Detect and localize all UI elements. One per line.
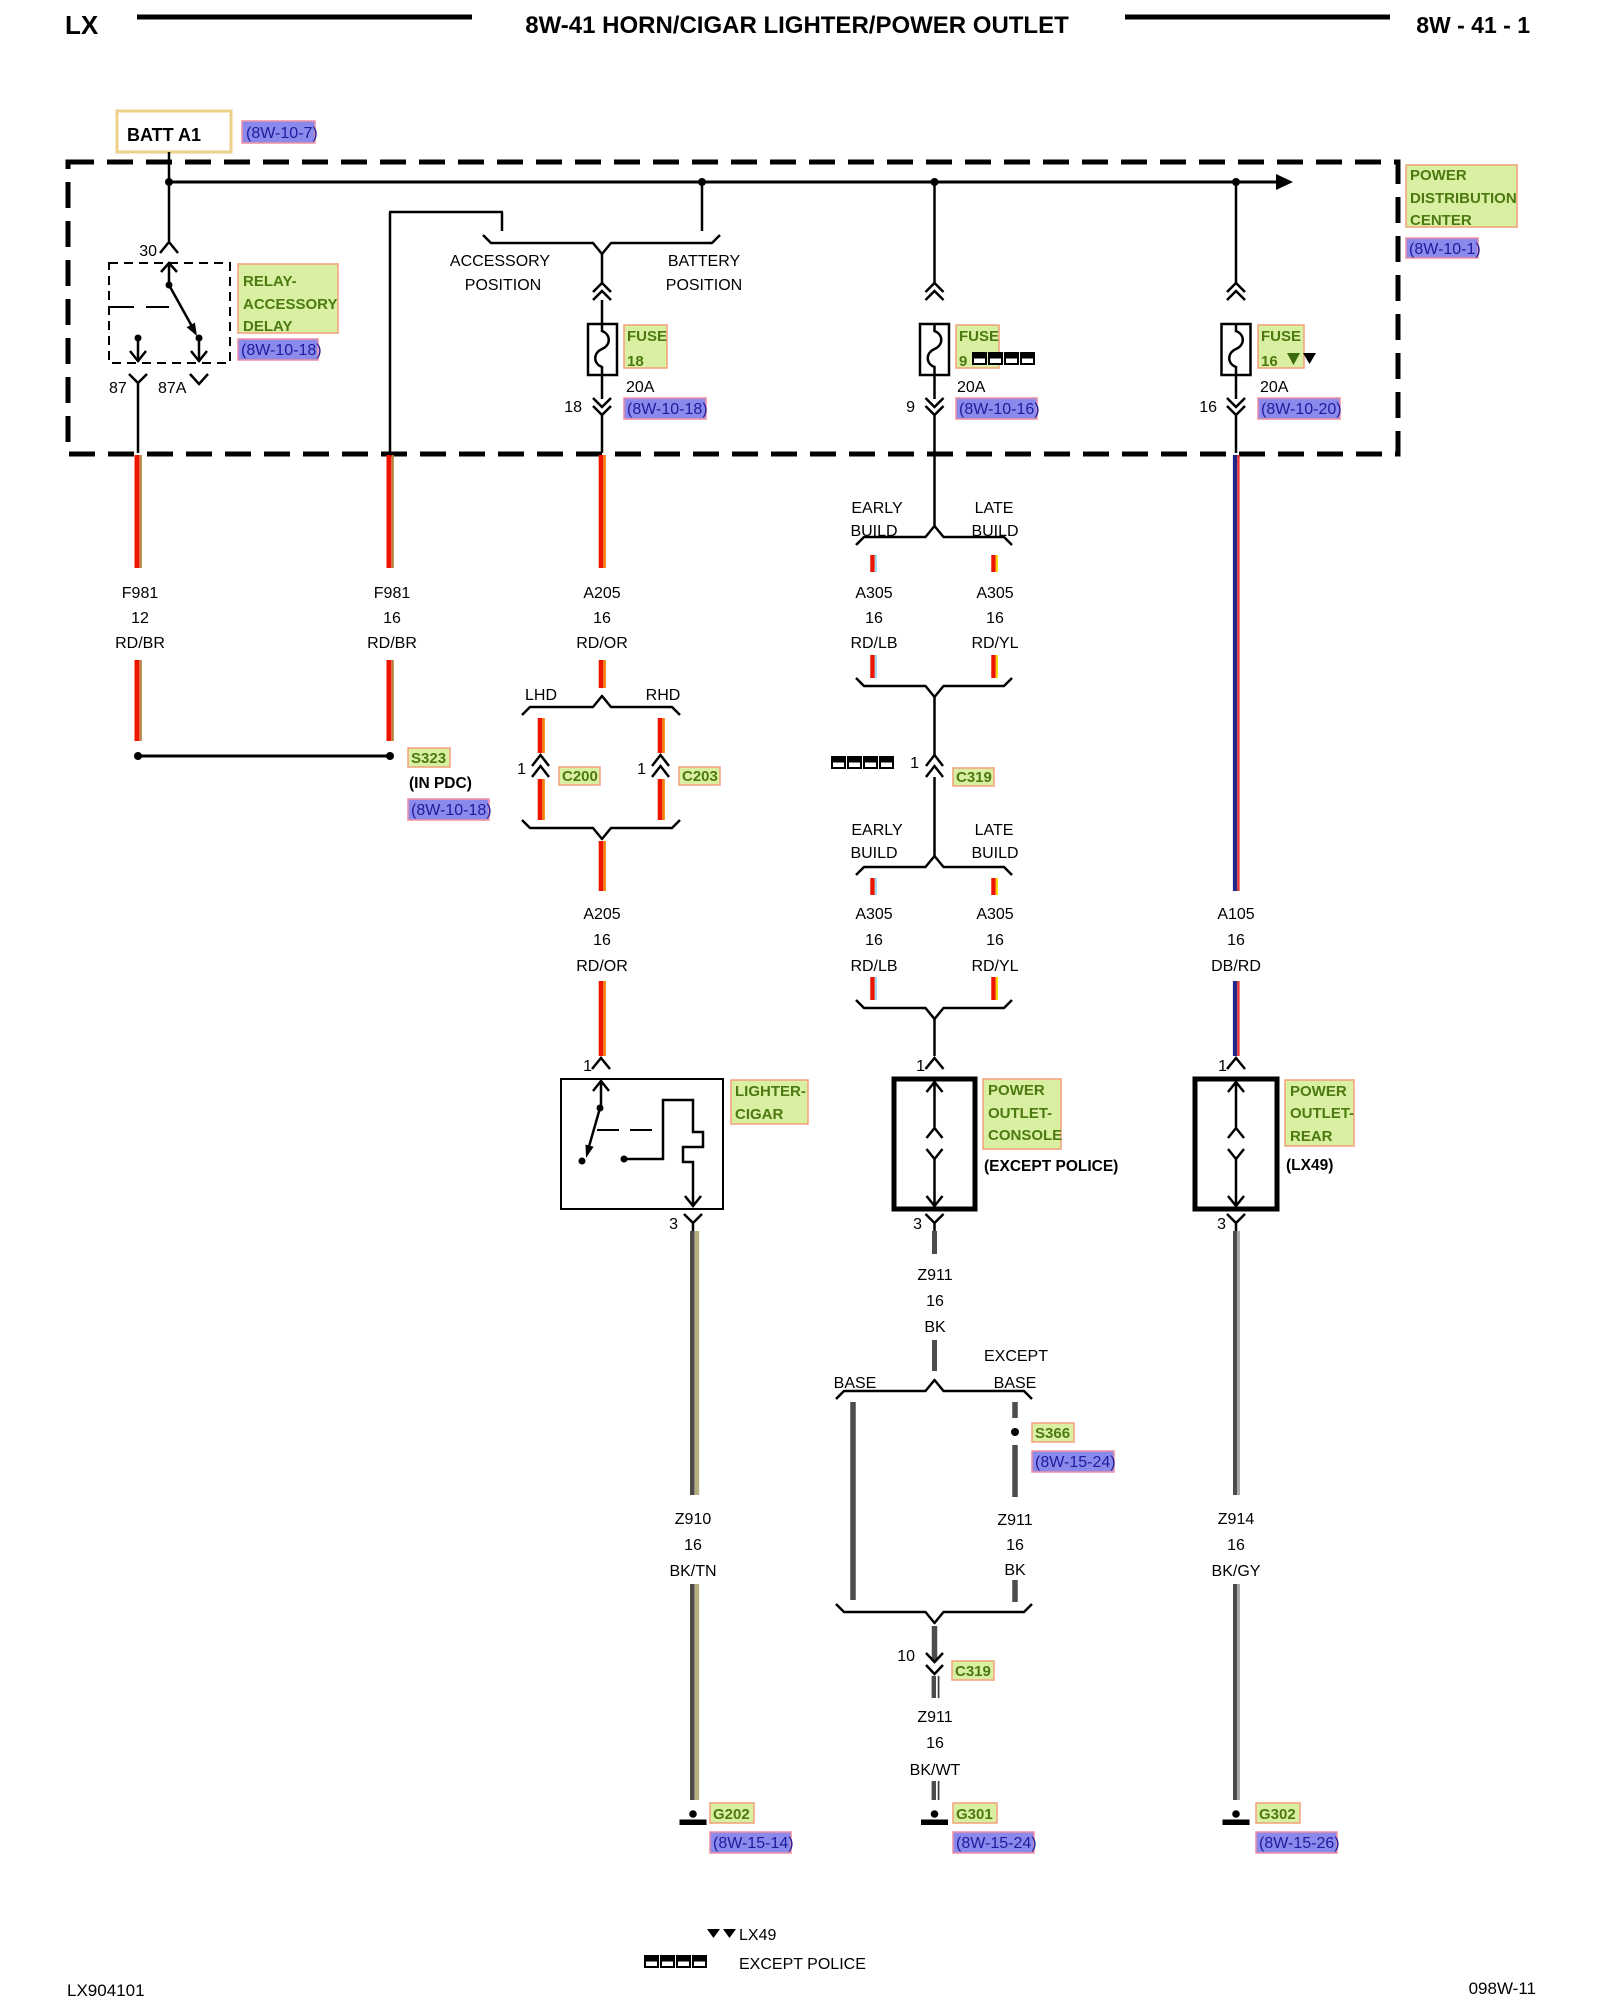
except-police marker squares beside C319 [832, 757, 893, 768]
svg-text:RD/YL: RD/YL [971, 635, 1018, 652]
svg-text:DB/RD: DB/RD [1211, 958, 1261, 975]
wire bus to fuse 9 [933, 182, 936, 284]
connector C319 arrow and chevron [926, 1653, 943, 1674]
svg-text:1: 1 [517, 761, 526, 778]
component label POWER OUTLET-CONSOLE [983, 1079, 1061, 1149]
svg-text:LIGHTER-: LIGHTER- [735, 1083, 806, 1100]
wire accessory-position feed (vertical at x=390) [389, 212, 392, 453]
svg-text:BUILD: BUILD [971, 845, 1018, 862]
svg-text:A205: A205 [583, 906, 620, 923]
svg-text:OUTLET-: OUTLET- [988, 1105, 1052, 1122]
svg-text:BK: BK [924, 1319, 946, 1336]
in-PDC connector chevrons below fuse 16 [1227, 398, 1245, 415]
option merge bracket accessory/battery position [483, 235, 720, 254]
component label FUSE 18 [624, 325, 667, 368]
wire A105 16 DB/RD lower segment [1235, 981, 1238, 1056]
connector label C203 [679, 767, 720, 785]
rear outlet internal contact chevrons [1228, 1128, 1244, 1159]
svg-text:87: 87 [109, 380, 127, 397]
svg-text:POSITION: POSITION [666, 277, 742, 294]
svg-text:BK/GY: BK/GY [1212, 1563, 1261, 1580]
svg-text:30: 30 [139, 243, 157, 260]
wire accessory-position drop to bracket [501, 212, 504, 231]
svg-text:LATE: LATE [975, 822, 1014, 839]
svg-text:3: 3 [913, 1216, 922, 1233]
header rule right [1125, 15, 1390, 20]
svg-text:RD/BR: RD/BR [115, 635, 165, 652]
power distribution center dashed box [68, 162, 1398, 454]
svg-text:(EXCEPT POLICE): (EXCEPT POLICE) [984, 1158, 1118, 1175]
wire A105 16 DB/RD upper segment [1235, 455, 1238, 891]
option merge bracket early/late build (upper) [856, 678, 1012, 697]
ref label (8W-15-24) [953, 1832, 1034, 1853]
svg-text:(8W-15-14): (8W-15-14) [713, 1835, 794, 1852]
wire A205 16 RD/OR to LHD/RHD split [601, 660, 605, 688]
relay terminal 87A chevron [190, 374, 208, 384]
ground label G301 [953, 1803, 997, 1823]
wire Z914 16 BK/GY lower segment [1235, 1584, 1239, 1800]
lighter switch contact node [579, 1158, 586, 1165]
battery feed BATT A1 box [117, 111, 231, 152]
svg-text:16: 16 [1227, 932, 1245, 949]
svg-text:C319: C319 [955, 1663, 991, 1680]
console outlet internal pin 3 arrow [927, 1159, 943, 1206]
svg-text:DISTRIBUTION: DISTRIBUTION [1410, 190, 1517, 207]
ref label (8W-10-18) [408, 799, 489, 820]
legend LX49 triangles [707, 1929, 720, 1938]
splice label S323 [408, 748, 450, 767]
lighter switch pivot node [597, 1105, 604, 1112]
svg-text:EARLY: EARLY [851, 822, 903, 839]
svg-text:16: 16 [593, 932, 611, 949]
relay terminal 87 female terminal Y [129, 374, 147, 390]
svg-text:Z914: Z914 [1218, 1511, 1255, 1528]
svg-text:C200: C200 [562, 768, 598, 785]
LX49 marker triangles beside fuse 16 [1287, 353, 1300, 365]
svg-text:G302: G302 [1259, 1806, 1296, 1823]
ref label (8W-10-18) [238, 339, 318, 360]
svg-text:POSITION: POSITION [465, 277, 541, 294]
svg-text:OUTLET-: OUTLET- [1290, 1105, 1354, 1122]
option merge bracket base/except base [836, 1604, 1032, 1623]
component label POWER OUTLET-REAR [1285, 1080, 1354, 1146]
svg-text:BK/TN: BK/TN [669, 1563, 716, 1580]
ground G301 symbol [931, 1810, 939, 1818]
ground G202 symbol [689, 1810, 697, 1818]
lighter actuation dashed link [597, 1129, 657, 1131]
svg-text:ACCESSORY: ACCESSORY [450, 253, 551, 270]
svg-text:8W - 41 - 1: 8W - 41 - 1 [1416, 12, 1530, 38]
svg-text:FUSE: FUSE [627, 328, 667, 345]
component label POWER DISTRIBUTION CENTER [1406, 165, 1517, 227]
wire Z914 16 BK/GY upper segment [1235, 1231, 1239, 1495]
wire except-base branch lower stub [1012, 1580, 1018, 1602]
relay 87A internal pin arrow [191, 338, 207, 361]
wire accessory-position horizontal run [389, 211, 503, 214]
svg-text:CONSOLE: CONSOLE [988, 1127, 1062, 1144]
wire Z911 16 BK upper segment [932, 1231, 937, 1254]
svg-text:(8W-15-24): (8W-15-24) [956, 1835, 1037, 1852]
wire RHD branch below C203 [660, 779, 664, 820]
wire RHD branch RD/OR to C203 [660, 718, 664, 753]
svg-text:(8W-10-7): (8W-10-7) [246, 125, 318, 142]
relay coil actuation dashed link [110, 306, 169, 308]
lighter pin 3 female terminal Y [684, 1214, 702, 1231]
component LIGHTER-CIGAR box [561, 1079, 723, 1209]
wire A305 16 RD/LB stub 2 (upper) [873, 655, 876, 678]
rear outlet internal pin 1 arrow [1228, 1082, 1244, 1127]
in-PDC connector chevrons below fuse 18 [593, 398, 611, 415]
rear outlet internal pin 3 arrow [1228, 1159, 1244, 1206]
component label FUSE 16 [1258, 325, 1304, 368]
svg-text:16: 16 [1006, 1537, 1024, 1554]
lighter switch blade with arrowhead [588, 1108, 600, 1150]
svg-text:10: 10 [897, 1648, 915, 1665]
svg-text:LATE: LATE [975, 500, 1014, 517]
svg-text:EXCEPT POLICE: EXCEPT POLICE [739, 1956, 866, 1973]
wire Z910 16 BK/TN upper segment [692, 1231, 697, 1495]
relay pin 30 internal arrow [161, 263, 177, 285]
svg-text:(8W-10-20): (8W-10-20) [1261, 401, 1342, 418]
svg-text:A305: A305 [976, 906, 1013, 923]
option split bracket early/late build (lower) [856, 856, 1012, 875]
svg-text:Z911: Z911 [917, 1709, 952, 1726]
svg-text:A305: A305 [855, 906, 892, 923]
svg-text:F981: F981 [374, 585, 411, 602]
option merge bracket early/late build (lower) [856, 1000, 1012, 1019]
lighter internal pin 1 arrow [593, 1081, 609, 1108]
in-PDC connector chevrons below fuse 9 [926, 398, 944, 415]
svg-text:EARLY: EARLY [851, 500, 903, 517]
svg-text:FUSE: FUSE [959, 328, 999, 345]
relay 87A contact node [196, 335, 203, 342]
component label FUSE 9 [956, 325, 999, 368]
splice S323 tie wire [138, 755, 390, 758]
svg-text:(8W-10-18): (8W-10-18) [411, 802, 492, 819]
option merge bracket LHD/RHD [522, 820, 680, 839]
except-police marker squares beside fuse 9 [973, 353, 1034, 364]
ground G302 symbol [1232, 1810, 1240, 1818]
svg-text:S366: S366 [1035, 1425, 1070, 1442]
svg-text:18: 18 [564, 399, 582, 416]
svg-text:1: 1 [910, 755, 919, 772]
svg-text:DELAY: DELAY [243, 318, 292, 335]
svg-text:F981: F981 [122, 585, 159, 602]
svg-text:RD/OR: RD/OR [576, 958, 628, 975]
svg-text:(8W-15-24): (8W-15-24) [1035, 1454, 1116, 1471]
svg-text:(8W-15-26): (8W-15-26) [1259, 1835, 1340, 1852]
svg-text:ACCESSORY: ACCESSORY [243, 296, 337, 313]
wire A205 16 RD/OR to lighter [601, 981, 605, 1056]
svg-text:LHD: LHD [525, 687, 557, 704]
component label RELAY-ACCESSORY DELAY [238, 264, 338, 333]
svg-text:BK: BK [1004, 1562, 1026, 1579]
svg-text:16: 16 [1199, 399, 1217, 416]
svg-text:C319: C319 [956, 769, 992, 786]
svg-text:RHD: RHD [646, 687, 681, 704]
svg-text:16: 16 [865, 932, 883, 949]
bus arrowhead [1276, 174, 1293, 190]
option split bracket LHD/RHD [522, 696, 680, 715]
wire merge to power outlet console [933, 1019, 936, 1056]
svg-text:LX49: LX49 [739, 1927, 776, 1944]
fuse F18 body [588, 324, 617, 375]
console outlet internal pin 1 arrow [927, 1082, 943, 1127]
svg-text:9: 9 [959, 353, 967, 370]
wire A305 16 RD/LB stub (upper) [873, 555, 876, 572]
svg-text:(IN PDC): (IN PDC) [409, 775, 472, 792]
ref label (8W-10-1) [1406, 238, 1478, 258]
wire except-base branch to splice S366 [1012, 1402, 1018, 1418]
component label LIGHTER-CIGAR [731, 1080, 808, 1124]
ref label (8W-10-20) [1258, 398, 1340, 419]
svg-text:BK/WT: BK/WT [910, 1762, 961, 1779]
option split bracket base/except base [836, 1380, 1032, 1399]
ground label G302 [1256, 1803, 1300, 1823]
svg-text:(8W-10-18): (8W-10-18) [241, 342, 322, 359]
svg-text:16: 16 [593, 610, 611, 627]
wire chevron to fuse 18 [601, 300, 604, 325]
wire Z911 16 BK to base split [932, 1340, 937, 1371]
bus wire B+ inside PDC [169, 181, 1277, 184]
wire fuse 9 to output chevron [933, 375, 936, 399]
in-PDC connector chevrons above fuse 9 [926, 283, 944, 300]
svg-text:16: 16 [1261, 353, 1278, 370]
svg-text:EXCEPT: EXCEPT [984, 1348, 1048, 1365]
relay terminal 30 female connector chevron [160, 242, 178, 253]
wire F981 12 RD/BR lower segment [137, 660, 141, 741]
ref label (8W-15-14) [710, 1832, 791, 1853]
relay 87 internal pin arrow [130, 338, 146, 361]
svg-text:BASE: BASE [994, 1375, 1037, 1392]
connector label C319 (lower) [952, 1661, 994, 1680]
fuse F9 body [920, 324, 949, 375]
wire F981 12 RD/BR (relay 87 output) upper segment [137, 455, 141, 568]
ref label (8W-10-7) [242, 121, 315, 143]
wire A205 16 RD/OR below merge [601, 841, 605, 891]
wire C319 to early/late split (lower) [933, 777, 936, 857]
svg-text:RD/YL: RD/YL [971, 958, 1018, 975]
ground label G202 [710, 1803, 754, 1823]
wire A305 16 RD/YL stub (upper) [994, 555, 997, 572]
wire LHD branch RD/OR to C200 [540, 718, 544, 753]
svg-text:1: 1 [916, 1058, 925, 1075]
relay R1 RELAY-ACCESSORY DELAY dashed outline [109, 263, 230, 363]
svg-text:BATTERY: BATTERY [668, 253, 741, 270]
svg-text:BASE: BASE [834, 1375, 877, 1392]
wire F981 16 RD/BR upper segment [389, 455, 393, 568]
svg-text:8W-41 HORN/CIGAR LIGHTER/POWER: 8W-41 HORN/CIGAR LIGHTER/POWER OUTLET [525, 12, 1069, 39]
svg-text:1: 1 [637, 761, 646, 778]
svg-text:16: 16 [986, 610, 1004, 627]
wire relay 87 down to PDC edge [137, 390, 140, 453]
svg-text:G301: G301 [956, 1806, 993, 1823]
lighter heating element loop and meander [624, 1100, 703, 1206]
svg-text:A205: A205 [583, 585, 620, 602]
wire A305 16 RD/YL stub (lower) [994, 878, 997, 895]
junction node fuse 16 tap [1232, 178, 1240, 186]
relay 87 contact node [135, 335, 142, 342]
rear outlet pin 1 chevron [1227, 1058, 1245, 1069]
in-PDC connector chevrons above fuse 16 [1227, 283, 1245, 300]
svg-text:20A: 20A [1260, 379, 1289, 396]
svg-text:CIGAR: CIGAR [735, 1106, 784, 1123]
ref label (8W-10-16) [956, 398, 1037, 419]
svg-text:LX: LX [65, 10, 99, 40]
svg-text:RD/LB: RD/LB [850, 958, 897, 975]
svg-text:3: 3 [669, 1216, 678, 1233]
lighter internal pin 3 arrow [685, 1196, 701, 1206]
connector label C200 [559, 767, 600, 785]
junction node at BATT drop [165, 178, 173, 186]
svg-text:16: 16 [926, 1735, 944, 1752]
ref label (8W-10-18) [624, 398, 706, 419]
console outlet pin 3 female terminal Y [926, 1214, 944, 1231]
connector C203 chevrons [652, 755, 669, 777]
svg-text:16: 16 [684, 1537, 702, 1554]
svg-text:16: 16 [865, 610, 883, 627]
connector C200 chevrons [532, 755, 549, 777]
wire Z910 16 BK/TN lower segment [692, 1584, 697, 1800]
wire A305 16 RD/LB stub (lower) [873, 878, 876, 895]
svg-text:(8W-10-1): (8W-10-1) [1409, 241, 1481, 258]
component POWER OUTLET-REAR box [1195, 1079, 1277, 1209]
header rule left [137, 15, 472, 20]
relay common node [166, 282, 173, 289]
svg-text:Z911: Z911 [917, 1267, 952, 1284]
svg-text:RD/LB: RD/LB [850, 635, 897, 652]
svg-text:FUSE: FUSE [1261, 328, 1301, 345]
wire merge to connector C319 [933, 697, 936, 755]
svg-text:20A: 20A [626, 379, 655, 396]
svg-text:G202: G202 [713, 1806, 750, 1823]
ref label (8W-15-26) [1256, 1832, 1337, 1853]
wire A305 16 RD/YL stub 2 (lower) [994, 977, 997, 1000]
svg-text:(LX49): (LX49) [1286, 1157, 1333, 1174]
wire fuse 16 to output chevron [1235, 375, 1238, 399]
console outlet internal contact chevrons [927, 1128, 943, 1159]
svg-text:16: 16 [986, 932, 1004, 949]
svg-text:9: 9 [906, 399, 915, 416]
svg-text:BUILD: BUILD [850, 845, 897, 862]
svg-text:Z910: Z910 [675, 1511, 712, 1528]
svg-text:RD/OR: RD/OR [576, 635, 628, 652]
wire fuse 18 to output chevron [601, 375, 604, 399]
wire fuse 18 output to PDC edge [601, 415, 604, 453]
svg-text:CENTER: CENTER [1410, 212, 1472, 229]
wire except-base branch below splice [1012, 1445, 1018, 1497]
splice label S366 [1032, 1423, 1074, 1442]
junction node fuse 9 tap [931, 178, 939, 186]
lighter element feed node [621, 1156, 628, 1163]
svg-text:A305: A305 [976, 585, 1013, 602]
wire F981 16 RD/BR lower segment [389, 660, 393, 741]
connector C319 chevrons [926, 755, 943, 777]
svg-text:16: 16 [383, 610, 401, 627]
svg-text:18: 18 [627, 353, 644, 370]
svg-text:A305: A305 [855, 585, 892, 602]
svg-text:098W-11: 098W-11 [1469, 1979, 1536, 1998]
splice node S366 [1011, 1428, 1019, 1436]
svg-text:LX904101: LX904101 [67, 1981, 145, 2000]
svg-text:16: 16 [926, 1293, 944, 1310]
svg-text:A105: A105 [1217, 906, 1254, 923]
svg-text:Z911: Z911 [997, 1512, 1032, 1529]
rear outlet pin 3 female terminal Y [1227, 1214, 1245, 1231]
wire fuse 9 output below PDC [933, 453, 936, 527]
junction node battery-position tap [698, 178, 706, 186]
wire A305 16 RD/LB stub 2 (lower) [873, 977, 876, 1000]
wire bracket to fuse 18 [601, 254, 604, 284]
svg-text:12: 12 [131, 610, 149, 627]
svg-text:RELAY-: RELAY- [243, 273, 297, 290]
wire Z911 16 BK/WT lower segment [934, 1781, 939, 1800]
wire battery-position drop to bracket [701, 182, 704, 231]
fuse F16 body [1222, 324, 1251, 375]
wire A305 16 RD/YL stub 2 (upper) [994, 655, 997, 678]
splice node left [134, 752, 142, 760]
svg-text:20A: 20A [957, 379, 986, 396]
wire fuse 16 output to PDC edge [1235, 415, 1238, 453]
svg-text:87A: 87A [158, 380, 187, 397]
wire Z911 16 BK/WT upper segment [934, 1676, 939, 1698]
wire LHD branch below C200 [540, 779, 544, 820]
legend except-police squares [645, 1956, 706, 1967]
wire A205 16 RD/OR upper segment [601, 455, 605, 568]
svg-text:C203: C203 [682, 768, 718, 785]
svg-text:RD/BR: RD/BR [367, 635, 417, 652]
option split bracket early/late build (upper) [856, 526, 1012, 545]
svg-text:REAR: REAR [1290, 1128, 1333, 1145]
wire fuse 9 output to PDC edge [933, 415, 936, 453]
wire bus to fuse 16 [1235, 182, 1238, 284]
svg-text:POWER: POWER [1290, 1083, 1347, 1100]
svg-text:1: 1 [583, 1058, 592, 1075]
relay switch blade with arrowhead [169, 285, 194, 330]
connector label C319 [953, 768, 994, 786]
splice node right S323 [386, 752, 394, 760]
svg-text:S323: S323 [411, 750, 446, 767]
wire base branch Z911 BK [850, 1402, 856, 1600]
wire from BATT A1 down to bus [168, 152, 171, 241]
component POWER OUTLET-CONSOLE box [894, 1079, 975, 1209]
ref label (8W-15-24) [1032, 1451, 1114, 1472]
svg-text:16: 16 [1227, 1537, 1245, 1554]
in-PDC connector chevrons above fuse 18 [593, 283, 611, 300]
svg-text:(8W-10-16): (8W-10-16) [959, 401, 1040, 418]
svg-text:POWER: POWER [1410, 167, 1467, 184]
wire merged Z911 to C319 [932, 1626, 938, 1661]
lighter pin 1 chevron [592, 1058, 610, 1069]
console outlet pin 1 chevron [926, 1058, 944, 1069]
svg-text:(8W-10-18): (8W-10-18) [627, 401, 708, 418]
svg-text:POWER: POWER [988, 1082, 1045, 1099]
svg-text:3: 3 [1217, 1216, 1226, 1233]
svg-text:1: 1 [1218, 1058, 1227, 1075]
svg-text:BATT A1: BATT A1 [127, 125, 201, 145]
